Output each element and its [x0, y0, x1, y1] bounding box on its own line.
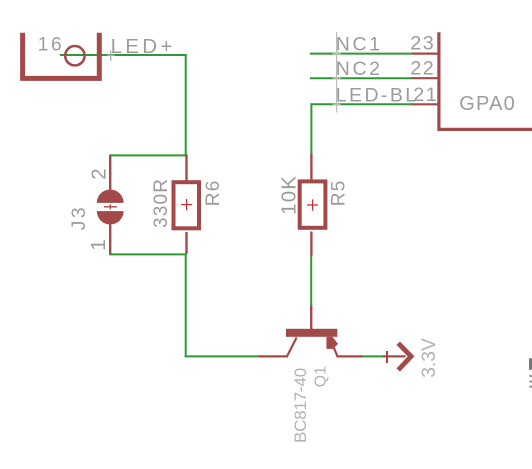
- wire R5 bottom to Q1: [310, 255, 312, 306]
- wire vertical down from R6 bottom: [185, 253, 187, 357]
- svg-text:16: 16: [38, 34, 64, 55]
- svg-text:1: 1: [87, 239, 110, 250]
- right edge dot 3: [529, 386, 532, 388]
- wire LED+ net horizontal: [60, 54, 187, 56]
- resistor R5 bottom pin: [310, 232, 312, 256]
- transistor Q1 emitter lead: [336, 355, 362, 357]
- right edge dot 2: [529, 381, 532, 383]
- svg-text:GPA0: GPA0: [459, 93, 516, 115]
- transistor Q1 collector lead: [258, 355, 288, 357]
- IC pin stub 23: [412, 52, 439, 54]
- supply origin tick: [386, 351, 388, 363]
- gray tick LED-BL anchor: [333, 103, 341, 105]
- svg-text:2: 2: [87, 168, 110, 179]
- LED J3 bottom dome: [97, 211, 124, 224]
- right edge clipped text artifact: [529, 358, 532, 370]
- transistor Q1 emitter arrow: [326, 337, 338, 349]
- wire R6 top horizontal: [109, 154, 187, 156]
- gray cross LED+ label anchor: [107, 51, 115, 61]
- wire LED+ net vertical: [185, 54, 187, 156]
- svg-text:22: 22: [410, 58, 435, 80]
- svg-text:R5: R5: [328, 179, 349, 206]
- svg-text:330R: 330R: [151, 178, 172, 228]
- supply arrow 3.3V: [398, 343, 411, 370]
- svg-text:NC1: NC1: [336, 33, 383, 55]
- svg-text:LED+: LED+: [111, 35, 176, 58]
- transistor Q1 collector diagonal: [287, 338, 296, 357]
- wire LED/R6 bottom horizontal: [109, 253, 187, 255]
- resistor R6 origin cross: [181, 199, 192, 210]
- resistor R6 top pin: [185, 155, 187, 181]
- wire horizontal to Q1 base: [185, 355, 259, 357]
- IC pin stub 22: [412, 77, 439, 79]
- wire LED-BL horizontal: [310, 103, 412, 105]
- LED J3 top dome: [97, 190, 124, 203]
- wire NC2: [310, 77, 412, 79]
- transistor Q1 bar: [286, 329, 337, 337]
- connector SV1 bracket: [23, 33, 100, 79]
- resistor R6 body: [174, 182, 200, 228]
- right edge dot 1: [529, 375, 532, 377]
- svg-text:BC817-40: BC817-40: [291, 368, 310, 443]
- wire LED-BL vertical to R5: [310, 103, 312, 154]
- transistor Q1 emitter diagonal: [334, 347, 338, 356]
- IC body outline: [439, 32, 532, 129]
- resistor R5 body: [300, 181, 326, 227]
- resistor R5 top pin: [310, 154, 312, 182]
- gray tick NC1 anchor: [333, 53, 341, 55]
- svg-text:NC2: NC2: [336, 58, 383, 80]
- resistor R5 origin cross: [307, 199, 318, 210]
- pin 16 circle: [65, 46, 84, 65]
- svg-text:23: 23: [410, 33, 435, 55]
- svg-text:J3: J3: [68, 205, 90, 230]
- gray label guide line at x=336.6: [336, 32, 338, 113]
- wire NC1: [310, 53, 412, 55]
- svg-text:LED-BL: LED-BL: [336, 84, 419, 106]
- LED J3 top pin: [109, 155, 111, 191]
- svg-text:R6: R6: [203, 179, 224, 206]
- wire Q1 emitter to supply: [362, 355, 383, 357]
- resistor R6 bottom pin: [185, 232, 187, 254]
- IC pin stub 21: [412, 103, 439, 105]
- svg-text:Q1: Q1: [312, 366, 329, 387]
- LED J3 middle cross: [104, 204, 117, 209]
- transistor Q1 base pin top: [310, 306, 312, 331]
- svg-text:10K: 10K: [277, 175, 300, 215]
- svg-text:3.3V: 3.3V: [419, 338, 440, 378]
- gray tick NC2 anchor: [333, 77, 341, 79]
- supply lead: [383, 355, 406, 357]
- svg-text:21: 21: [413, 84, 438, 106]
- LED J3 bottom pin: [109, 223, 111, 254]
